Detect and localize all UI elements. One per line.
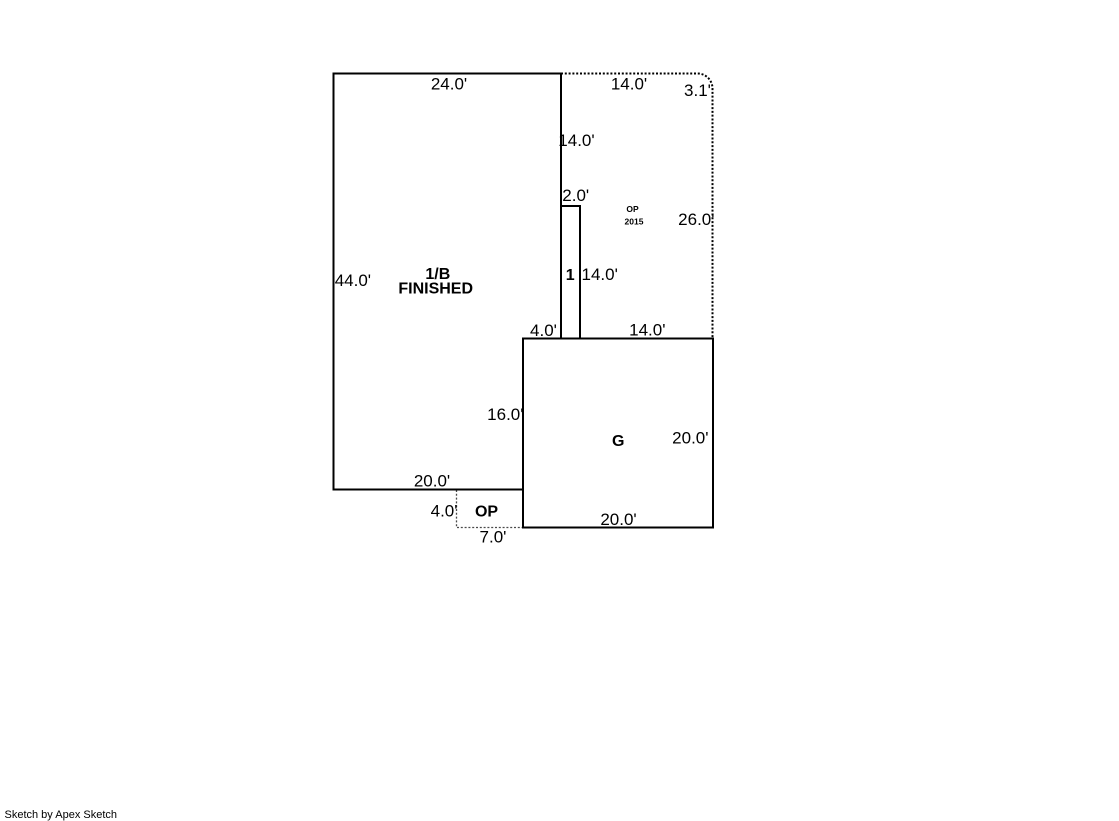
svg-text:OP: OP — [626, 204, 639, 214]
svg-text:FINISHED: FINISHED — [398, 281, 473, 298]
svg-text:26.0': 26.0' — [678, 210, 714, 229]
svg-text:2015: 2015 — [625, 217, 644, 227]
svg-text:3.1': 3.1' — [684, 81, 711, 100]
svg-text:20.0': 20.0' — [600, 510, 636, 529]
svg-text:4.0': 4.0' — [431, 502, 458, 521]
svg-text:OP: OP — [475, 504, 498, 521]
svg-text:G: G — [612, 433, 624, 450]
svg-text:14.0': 14.0' — [582, 265, 618, 284]
svg-text:4.0': 4.0' — [530, 321, 557, 340]
svg-text:7.0': 7.0' — [480, 528, 507, 547]
svg-text:20.0': 20.0' — [414, 472, 450, 491]
svg-text:20.0': 20.0' — [672, 429, 708, 448]
svg-text:1: 1 — [566, 267, 575, 284]
svg-text:14.0': 14.0' — [611, 75, 647, 94]
svg-text:14.0': 14.0' — [629, 321, 665, 340]
svg-text:44.0': 44.0' — [335, 271, 371, 290]
svg-text:2.0': 2.0' — [562, 186, 589, 205]
svg-text:24.0': 24.0' — [431, 75, 467, 94]
svg-text:Sketch by Apex Sketch: Sketch by Apex Sketch — [5, 809, 118, 821]
svg-text:14.0': 14.0' — [558, 131, 594, 150]
svg-text:16.0': 16.0' — [487, 405, 523, 424]
